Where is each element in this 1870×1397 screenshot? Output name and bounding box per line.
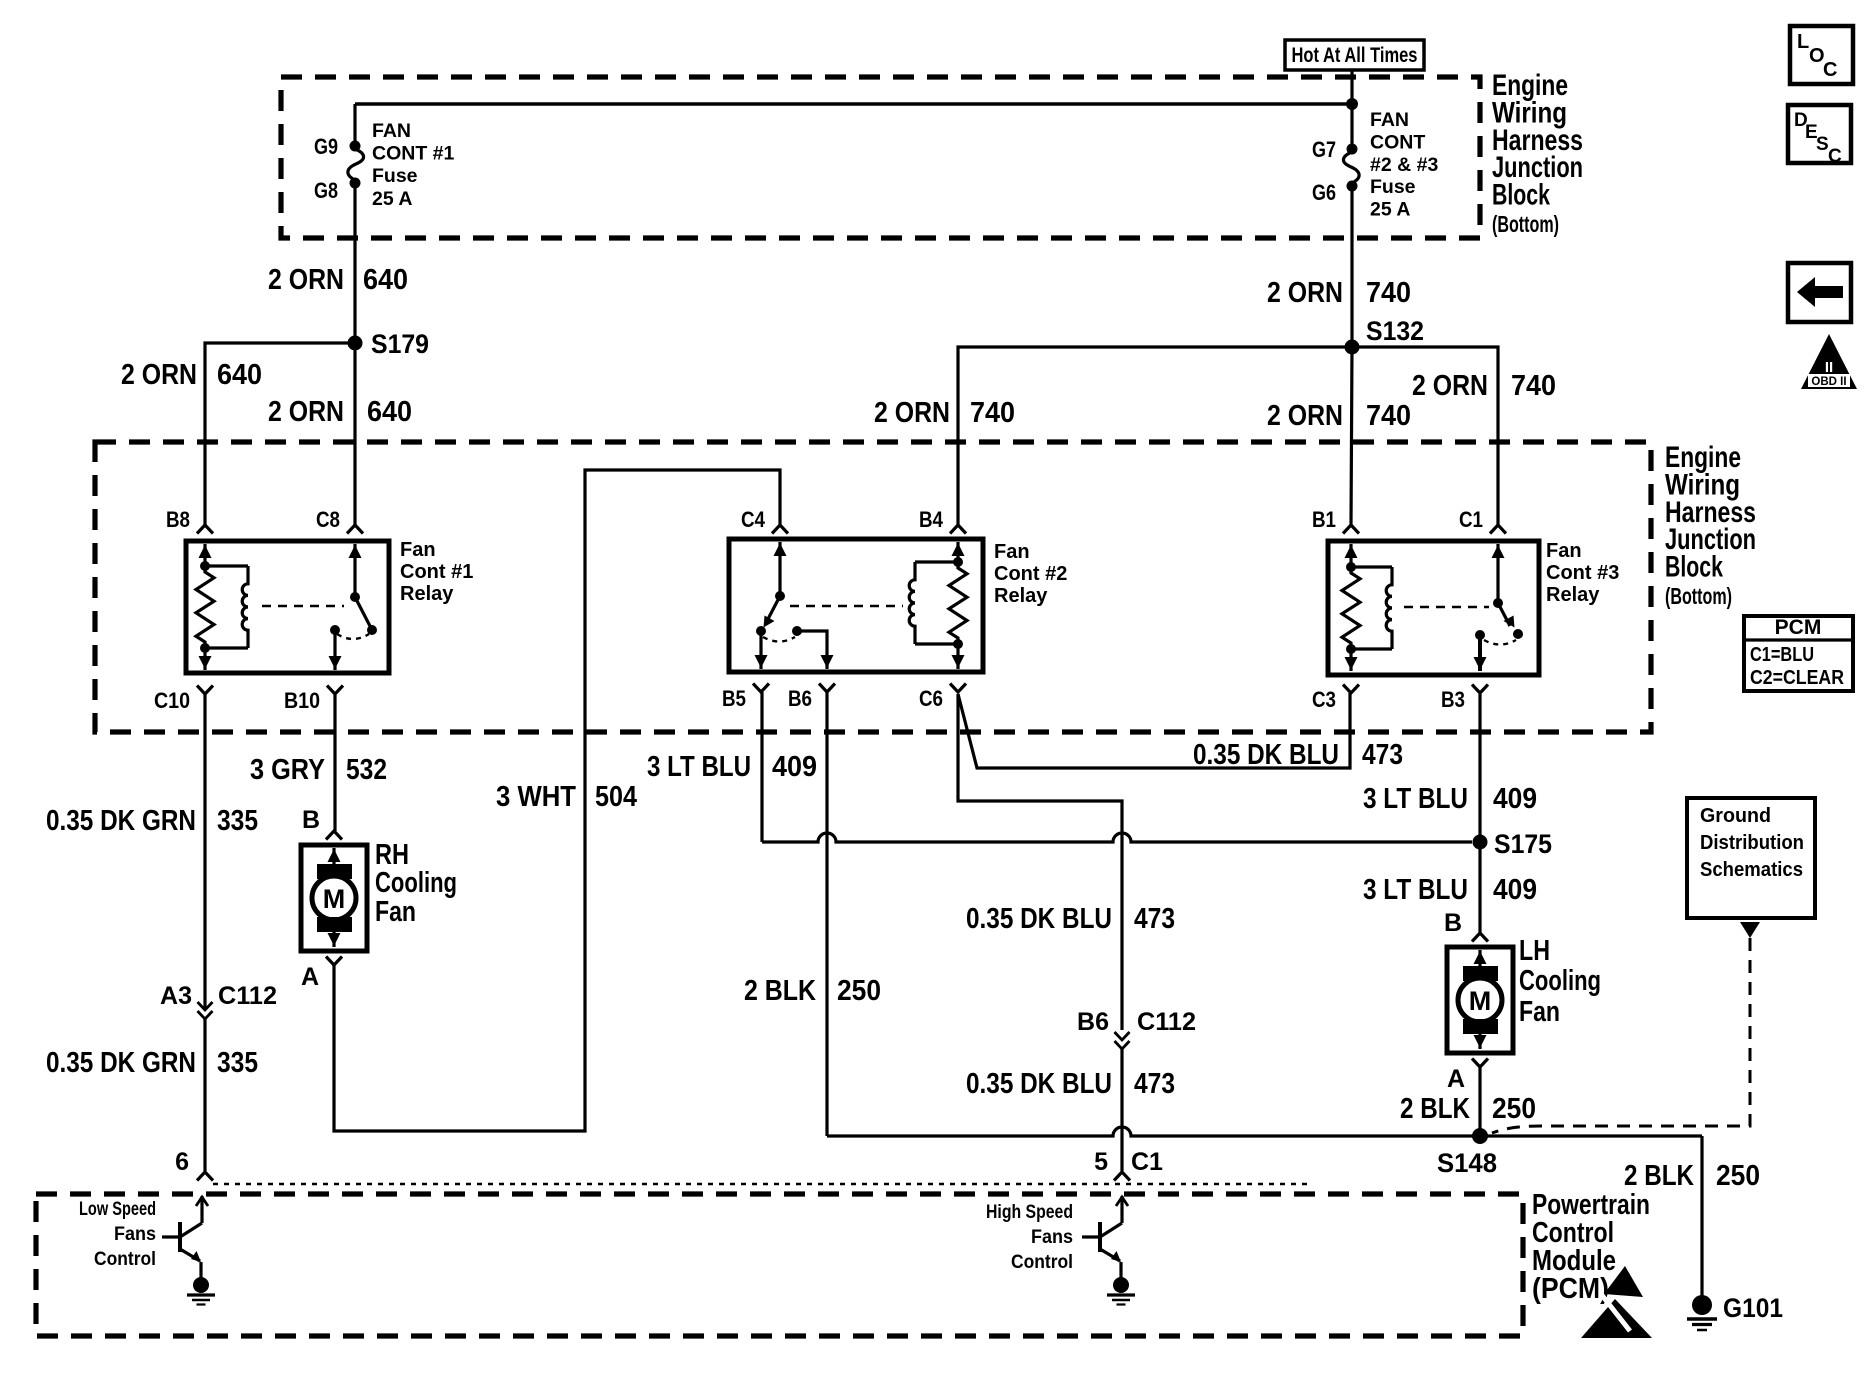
relay K3 Fan Cont #3 Relay box xyxy=(1328,541,1539,675)
PCM connector legend box C1=BLU C2=CLEAR xyxy=(1744,616,1853,691)
svg-text:Relay: Relay xyxy=(994,585,1048,607)
LH fan feed arrow xyxy=(1478,950,1481,968)
svg-text:0.35 DK BLU: 0.35 DK BLU xyxy=(966,903,1112,935)
relay 3 switch throw dashed arc xyxy=(1484,640,1516,645)
wire - 3 LT BLU 409 horizontal run to S175 with crossovers xyxy=(762,833,1472,842)
svg-text:B6: B6 xyxy=(788,686,812,711)
relay 1 switch output contact xyxy=(330,625,340,635)
resistor R3 inside relay 3 xyxy=(1342,567,1360,649)
svg-text:0.35 DK GRN: 0.35 DK GRN xyxy=(46,805,196,837)
wire - S132 down to relay 3 B1 xyxy=(1351,347,1352,525)
RH fan motor upper brush xyxy=(317,864,352,879)
svg-text:250: 250 xyxy=(1716,1160,1760,1192)
svg-text:S179: S179 xyxy=(371,329,429,359)
svg-text:2 BLK: 2 BLK xyxy=(744,975,816,1007)
svg-text:Fan: Fan xyxy=(994,541,1030,563)
ground - high speed driver emitter xyxy=(1113,1277,1129,1293)
RH fan motor lower brush xyxy=(317,917,352,932)
relay K2 Fan Cont #2 Relay box xyxy=(729,539,983,672)
svg-text:CONT #1: CONT #1 xyxy=(372,143,455,165)
relay 3 output contact to B3 xyxy=(1475,630,1485,640)
svg-text:High Speed: High Speed xyxy=(986,1201,1073,1223)
svg-text:2 ORN: 2 ORN xyxy=(874,397,950,429)
Powertrain Control Module dashed enclosure xyxy=(36,1194,1523,1336)
svg-text:C3: C3 xyxy=(1312,687,1336,712)
svg-text:2 BLK: 2 BLK xyxy=(1400,1093,1470,1125)
relay 2 switch output contact xyxy=(756,626,766,636)
svg-text:3 WHT: 3 WHT xyxy=(496,781,576,813)
svg-text:B: B xyxy=(1444,909,1462,937)
svg-text:G6: G6 xyxy=(1312,180,1336,205)
svg-text:740: 740 xyxy=(1511,370,1556,402)
svg-text:A: A xyxy=(301,963,319,991)
relay 2 switch arm with arrowhead xyxy=(768,596,780,619)
Hot At All Times power label box xyxy=(1285,40,1424,70)
svg-text:Fans: Fans xyxy=(1031,1226,1073,1248)
svg-text:25 A: 25 A xyxy=(372,188,412,210)
relay 1 switch pivot xyxy=(350,592,360,602)
svg-text:0.35 DK GRN: 0.35 DK GRN xyxy=(46,1047,196,1079)
svg-text:6: 6 xyxy=(175,1148,189,1176)
svg-text:3 LT BLU: 3 LT BLU xyxy=(1363,783,1468,815)
terminal B4 connector fork xyxy=(950,525,966,534)
svg-text:B10: B10 xyxy=(284,688,320,713)
svg-text:504: 504 xyxy=(595,781,637,813)
svg-text:640: 640 xyxy=(367,396,412,428)
svg-text:Relay: Relay xyxy=(1546,584,1600,606)
LH fan motor upper brush xyxy=(1463,966,1498,981)
svg-text:740: 740 xyxy=(1366,277,1411,309)
relay 1 coil feed arrow at B8 xyxy=(203,544,206,566)
relay 1 actuation dashed link xyxy=(262,605,344,608)
wire - relay 1 C10 down to connector C112 pin A3 (0.35 DK GRN 335) xyxy=(203,694,206,1009)
relay 3 switch feed from C1 xyxy=(1496,544,1499,603)
relay 2 coil feed arrow at B4 xyxy=(956,542,959,562)
splice S179 xyxy=(348,336,363,351)
svg-text:B3: B3 xyxy=(1441,687,1465,712)
wire - down to ground G101 xyxy=(1700,1136,1703,1296)
svg-text:LH: LH xyxy=(1519,935,1550,967)
svg-text:C10: C10 xyxy=(154,688,190,713)
svg-text:409: 409 xyxy=(1493,874,1537,906)
svg-text:Fuse: Fuse xyxy=(372,165,418,187)
resistor R1 inside relay 1 xyxy=(196,566,214,648)
svg-text:473: 473 xyxy=(1134,903,1175,935)
terminal C8 connector fork xyxy=(347,525,363,534)
svg-text:L: L xyxy=(1797,31,1809,53)
svg-text:M: M xyxy=(323,884,346,914)
coil L3 inside relay 3 xyxy=(1386,567,1392,649)
RH fan output arrow xyxy=(332,930,335,947)
wire - RH fan A loop down and right to 3 WHT riser xyxy=(334,470,780,1131)
wire - S175 down to LH cooling fan B (3 LT BLU 409) xyxy=(1478,842,1481,933)
svg-text:250: 250 xyxy=(837,975,881,1007)
junction block (bottom) dashed enclosure xyxy=(95,442,1651,732)
inline connector C112 pin B6 xyxy=(1115,1032,1130,1040)
svg-text:3 LT BLU: 3 LT BLU xyxy=(647,751,751,783)
svg-text:740: 740 xyxy=(1366,400,1411,432)
relay 2 coil output arrow to C6 xyxy=(956,644,959,669)
inline connector C112 pin A3 xyxy=(198,1002,213,1010)
wire - relay 1 B10 down to RH cooling fan B (3 GRY 532) xyxy=(333,694,336,831)
svg-text:Distribution: Distribution xyxy=(1700,832,1804,854)
svg-text:532: 532 xyxy=(346,754,387,786)
svg-text:Fan: Fan xyxy=(1519,996,1560,1028)
node - junction of feed bus at fuse 2 wire xyxy=(1346,98,1358,110)
resistor R2 inside relay 2 xyxy=(949,562,967,644)
LOC navigation icon xyxy=(1790,26,1853,84)
wire - relay 3 C3 stub into junction block xyxy=(1350,675,1352,693)
wire - S179 branch left then down to relay 1 B8 xyxy=(205,343,355,525)
relay 2 actuation dashed link xyxy=(790,605,903,608)
relay 2 switch pivot xyxy=(775,591,785,601)
svg-text:Cont #2: Cont #2 xyxy=(994,563,1067,585)
junction block (top) dashed enclosure xyxy=(281,77,1480,238)
svg-text:2 ORN: 2 ORN xyxy=(268,264,344,296)
svg-text:CONT: CONT xyxy=(1370,131,1425,153)
relay 1 switch arm (open) xyxy=(355,597,371,628)
svg-text:2 ORN: 2 ORN xyxy=(268,396,344,428)
relay 2 switch output to B5 xyxy=(759,631,762,669)
svg-text:2 ORN: 2 ORN xyxy=(121,359,197,391)
svg-text:B5: B5 xyxy=(722,686,746,711)
terminal B3 connector fork xyxy=(1472,685,1488,694)
svg-text:II: II xyxy=(1825,359,1833,376)
svg-text:G8: G8 xyxy=(314,178,338,203)
svg-text:S175: S175 xyxy=(1494,829,1552,859)
svg-text:C1: C1 xyxy=(1459,507,1483,532)
svg-text:Cooling: Cooling xyxy=(375,867,457,899)
svg-text:250: 250 xyxy=(1492,1093,1536,1125)
svg-text:(Bottom): (Bottom) xyxy=(1492,211,1559,237)
svg-text:B: B xyxy=(302,806,320,834)
svg-text:640: 640 xyxy=(363,264,408,296)
wire - relay 2 B6 down to ground run (2 BLK 250) xyxy=(825,692,828,1136)
transistor Q1 low speed fans control driver xyxy=(200,1196,203,1223)
svg-text:Fuse: Fuse xyxy=(1370,176,1416,198)
relay 2 normally-open contact to B6 xyxy=(792,626,802,636)
relay 1 coil output arrow to C10 xyxy=(203,648,206,670)
PCM connector face dotted line xyxy=(213,1183,1308,1185)
splice S175 xyxy=(1473,835,1488,850)
svg-text:C2=CLEAR: C2=CLEAR xyxy=(1750,666,1844,689)
svg-text:Control: Control xyxy=(94,1248,156,1270)
svg-text:M: M xyxy=(1469,986,1492,1016)
splice S148 xyxy=(1472,1128,1488,1144)
motor M1 RH Cooling Fan box xyxy=(301,845,367,951)
relay K1 Fan Cont #1 Relay box xyxy=(186,541,389,673)
fuse F2 FAN CONT #2 & #3 25A between G7 and G6 xyxy=(1347,144,1358,155)
svg-text:2 ORN: 2 ORN xyxy=(1267,400,1343,432)
RH fan motor circle M xyxy=(312,876,356,920)
svg-text:C6: C6 xyxy=(919,686,943,711)
svg-text:473: 473 xyxy=(1134,1068,1175,1100)
svg-text:A3: A3 xyxy=(160,982,192,1010)
svg-text:G101: G101 xyxy=(1723,1293,1783,1323)
terminal A of RH cooling fan xyxy=(326,957,342,966)
svg-text:(PCM): (PCM) xyxy=(1532,1273,1609,1305)
Ground Distribution Schematics reference box xyxy=(1687,798,1815,918)
svg-text:3 GRY: 3 GRY xyxy=(250,754,325,786)
wire - LH fan A down to splice S148 (2 BLK 250) xyxy=(1478,1067,1481,1136)
relay 1 switch throw dashed arc xyxy=(337,634,369,639)
terminal A of LH cooling fan xyxy=(1472,1059,1488,1068)
svg-text:C: C xyxy=(1828,146,1842,167)
svg-text:FAN: FAN xyxy=(372,120,411,142)
svg-text:473: 473 xyxy=(1362,739,1403,771)
svg-text:Fan: Fan xyxy=(375,896,416,928)
svg-text:C8: C8 xyxy=(316,507,340,532)
LH fan motor circle M xyxy=(1458,978,1502,1022)
svg-text:5: 5 xyxy=(1094,1148,1108,1176)
svg-text:Cont #1: Cont #1 xyxy=(400,561,473,583)
svg-text:C4: C4 xyxy=(741,507,766,532)
relay 3 coil output arrow to C3 xyxy=(1349,649,1352,671)
wire - relay 3 B3 down to splice S175 (3 LT BLU 409) xyxy=(1478,693,1481,842)
svg-text:Control: Control xyxy=(1011,1251,1073,1273)
ground - low speed driver emitter xyxy=(193,1277,209,1293)
svg-text:Schematics: Schematics xyxy=(1700,859,1803,881)
relay 3 coil/resistor bottom node xyxy=(1346,644,1356,654)
svg-text:Block: Block xyxy=(1492,179,1550,212)
wire - feed from Hot At All Times down to fuse bus xyxy=(1350,70,1353,149)
svg-text:Fan: Fan xyxy=(1546,540,1582,562)
svg-text:335: 335 xyxy=(217,805,258,837)
svg-text:640: 640 xyxy=(217,359,262,391)
coil L1 inside relay 1 xyxy=(242,566,248,648)
relay 2 switch feed from C4 xyxy=(778,542,781,596)
svg-text:Relay: Relay xyxy=(400,583,454,605)
svg-text:25 A: 25 A xyxy=(1370,199,1410,221)
terminal B6 connector fork xyxy=(819,684,835,693)
svg-text:409: 409 xyxy=(1493,783,1537,815)
svg-text:2 ORN: 2 ORN xyxy=(1412,370,1488,402)
wire - 2 BLK 250 ground run from relay 2 B6 to S148 and G101 xyxy=(827,1127,1702,1136)
svg-text:C112: C112 xyxy=(1137,1008,1196,1036)
wire - fuse 1 output G8 down to splice S179 xyxy=(353,183,356,343)
svg-text:OBD II: OBD II xyxy=(1811,376,1846,388)
svg-text:2 BLK: 2 BLK xyxy=(1624,1160,1694,1192)
svg-text:Block: Block xyxy=(1665,551,1723,584)
relay 1 coil/resistor bottom node xyxy=(200,643,210,653)
svg-text:(Bottom): (Bottom) xyxy=(1665,583,1732,609)
wire - S132 branch left to relay 2 B4 xyxy=(958,347,1352,525)
svg-text:740: 740 xyxy=(970,397,1015,429)
svg-text:A: A xyxy=(1447,1065,1465,1093)
svg-text:PCM: PCM xyxy=(1775,616,1822,639)
svg-text:G7: G7 xyxy=(1312,137,1336,162)
LH fan output arrow xyxy=(1478,1032,1481,1049)
svg-text:Ground: Ground xyxy=(1700,805,1771,827)
LH fan motor lower brush xyxy=(1463,1019,1498,1034)
svg-text:Hot At All Times: Hot At All Times xyxy=(1292,44,1418,67)
wire - horizontal fuse feed bus inside junction block xyxy=(355,102,1352,106)
svg-text:Cooling: Cooling xyxy=(1519,965,1601,997)
wire - relay 2 C6 branch to relay 3 C3 (0.35 DK BLU 473) xyxy=(958,693,1350,768)
svg-text:C: C xyxy=(1823,59,1837,81)
relay 3 coil feed arrow at B1 xyxy=(1349,544,1352,567)
fuse F1 FAN CONT #1 25A between G9 and G8 xyxy=(350,141,361,152)
dashed reference wire from Ground Distribution Schematics to S148 xyxy=(1492,938,1750,1133)
wire - C112 A3 down to PCM terminal 6 xyxy=(203,1019,206,1171)
svg-text:409: 409 xyxy=(772,751,817,783)
svg-text:S: S xyxy=(1816,134,1829,155)
svg-text:Fans: Fans xyxy=(114,1223,156,1245)
svg-text:FAN: FAN xyxy=(1370,109,1409,131)
terminal C4 connector fork xyxy=(772,525,788,534)
svg-text:0.35 DK BLU: 0.35 DK BLU xyxy=(966,1068,1112,1100)
relay 2 coil branch wires xyxy=(915,560,958,563)
svg-text:G9: G9 xyxy=(314,134,338,159)
terminal C10 connector fork xyxy=(197,686,213,695)
wire - fuse 2 output G6 down to splice S132 xyxy=(1350,186,1353,347)
svg-text:3 LT BLU: 3 LT BLU xyxy=(1363,874,1468,906)
terminal C6 connector fork xyxy=(950,684,966,693)
relay 2 coil/resistor top node xyxy=(953,557,963,567)
terminal B10 connector fork xyxy=(327,686,343,695)
relay 1 coil/resistor top node xyxy=(200,561,210,571)
terminal C3 connector fork xyxy=(1343,685,1359,694)
svg-text:2 ORN: 2 ORN xyxy=(1267,277,1343,309)
terminal B1 connector fork xyxy=(1343,525,1359,534)
motor M2 LH Cooling Fan box xyxy=(1447,947,1513,1053)
svg-text:S132: S132 xyxy=(1366,316,1424,346)
svg-text:S148: S148 xyxy=(1437,1148,1497,1178)
svg-text:B8: B8 xyxy=(166,507,190,532)
wire - S179 down to relay 1 C8 xyxy=(353,343,356,525)
RH fan feed arrow xyxy=(332,848,335,866)
reference arrow triangle xyxy=(1740,922,1760,938)
svg-text:B6: B6 xyxy=(1077,1008,1109,1036)
svg-text:Cont #3: Cont #3 xyxy=(1546,562,1619,584)
svg-text:B1: B1 xyxy=(1312,507,1336,532)
relay 3 actuation dashed link xyxy=(1404,606,1489,609)
wire - C112 B6 down to PCM terminal 5 (0.35 DK BLU 473) xyxy=(1120,1049,1123,1171)
svg-text:Low Speed: Low Speed xyxy=(79,1198,156,1220)
relay 2 switch throw dashed arc xyxy=(763,637,795,642)
transistor Q2 high speed fans control driver xyxy=(1120,1196,1123,1223)
wire - relay 2 C6 down and right to C112 B6 (0.35 DK BLU 473) xyxy=(958,694,1122,1030)
wire - bus drop to fuse 1 terminal G9 xyxy=(353,104,356,146)
svg-text:C1=BLU: C1=BLU xyxy=(1750,643,1814,666)
relay 3 coil branch wires xyxy=(1351,565,1392,568)
coil L2 inside relay 2 xyxy=(909,562,915,644)
ground G101 symbol xyxy=(1692,1295,1712,1315)
ESD sensitivity icon xyxy=(1604,1266,1643,1297)
relay 2 coil/resistor bottom node xyxy=(953,639,963,649)
svg-text:0.35 DK BLU: 0.35 DK BLU xyxy=(1193,739,1339,771)
terminal C1 connector fork xyxy=(1490,525,1506,534)
svg-text:C1: C1 xyxy=(1131,1148,1163,1176)
wire - S132 branch right to relay 3 C1 xyxy=(1352,347,1498,525)
DESC navigation icon xyxy=(1788,105,1851,163)
relay 3 coil/resistor top node xyxy=(1346,562,1356,572)
back arrow navigation icon xyxy=(1788,263,1851,322)
terminal B5 connector fork xyxy=(753,684,769,693)
OBD II icon triangle xyxy=(1801,334,1857,389)
svg-text:335: 335 xyxy=(217,1047,258,1079)
svg-text:Fan: Fan xyxy=(400,539,436,561)
relay 3 switch arm with arrowhead xyxy=(1498,603,1510,626)
wire - relay 2 B5 down then right to splice S175 (3 LT BLU 409) xyxy=(760,692,763,842)
relay 3 switch pivot xyxy=(1493,598,1503,608)
terminal B8 connector fork xyxy=(197,525,213,534)
relay 1 coil branch wires xyxy=(205,564,248,567)
svg-text:C112: C112 xyxy=(218,982,277,1010)
svg-text:B4: B4 xyxy=(919,507,944,532)
relay 1 switch feed from C8 xyxy=(353,544,356,597)
svg-text:#2 & #3: #2 & #3 xyxy=(1370,154,1438,176)
